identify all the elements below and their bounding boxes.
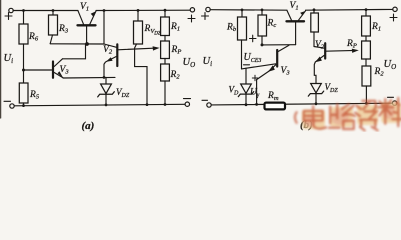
transistor V3 (24, 59, 64, 78)
input + terminal (9, 8, 13, 12)
resistor R6 (19, 11, 28, 84)
input - terminal (10, 104, 14, 108)
resistor R2 (161, 64, 170, 105)
pale fill blobs (302, 102, 401, 129)
wire bottom rail b (211, 103, 392, 105)
wire node V1 base (50, 43, 104, 45)
resistor Rb (238, 10, 247, 69)
resistor Rc (258, 10, 267, 45)
input + terminal b (206, 7, 210, 11)
resistor R1 (161, 10, 170, 41)
wire V3 collector to node (63, 44, 86, 59)
output + terminal (190, 8, 194, 12)
output - terminal b (393, 101, 397, 105)
annotation UCE3 (250, 35, 257, 42)
transistor V2 (104, 11, 117, 78)
output - terminal (185, 102, 189, 106)
resistor R4 (unlabeled) (311, 10, 319, 47)
wire V3/V2 emitter rail (63, 76, 115, 79)
transistor V1 (78, 11, 97, 44)
wire RP wiper arrow (118, 48, 157, 50)
resistor R5 (19, 83, 28, 106)
char3 资 (355, 101, 377, 131)
transistor V2 b (314, 43, 325, 83)
red watermark (hand-drawn blurry hanzi-like strokes) (295, 98, 401, 130)
wire top rail left (13, 10, 78, 12)
svg-text:(a): (a) (82, 120, 95, 132)
output + terminal b (393, 7, 397, 11)
zener VDZ (98, 77, 115, 105)
transistor V3 b (257, 45, 289, 104)
transistor V1 b (287, 11, 306, 45)
wire RP wiper arrow b (326, 49, 356, 52)
wire top rail right (96, 9, 190, 11)
resistor Rm (series, bottom rail) (265, 103, 286, 110)
resistor R3 (49, 11, 58, 44)
zener VDZ b (308, 84, 323, 104)
input - terminal b (207, 103, 211, 107)
resistor RVDZ (134, 10, 148, 104)
wire top rail left b (210, 9, 287, 12)
potentiometer RP (161, 41, 170, 59)
potentiometer RP b (362, 41, 371, 59)
char4 料 (378, 98, 401, 126)
node dot (85, 42, 89, 46)
wire bottom rail a (14, 104, 185, 106)
char2 路 (329, 104, 355, 129)
resistor R2 b (362, 66, 371, 103)
diode VD (238, 68, 253, 105)
scan edge artifact (0, 0, 2, 118)
wire top rail right b (306, 8, 393, 11)
resistor R1 b (362, 10, 371, 41)
junction dots b (241, 8, 368, 106)
char1 电 (295, 106, 326, 128)
wire V3 base lead (242, 64, 276, 69)
wire Rc to V1 base node (262, 44, 296, 46)
junction dots a (22, 9, 166, 107)
annotation Uy (252, 75, 257, 80)
